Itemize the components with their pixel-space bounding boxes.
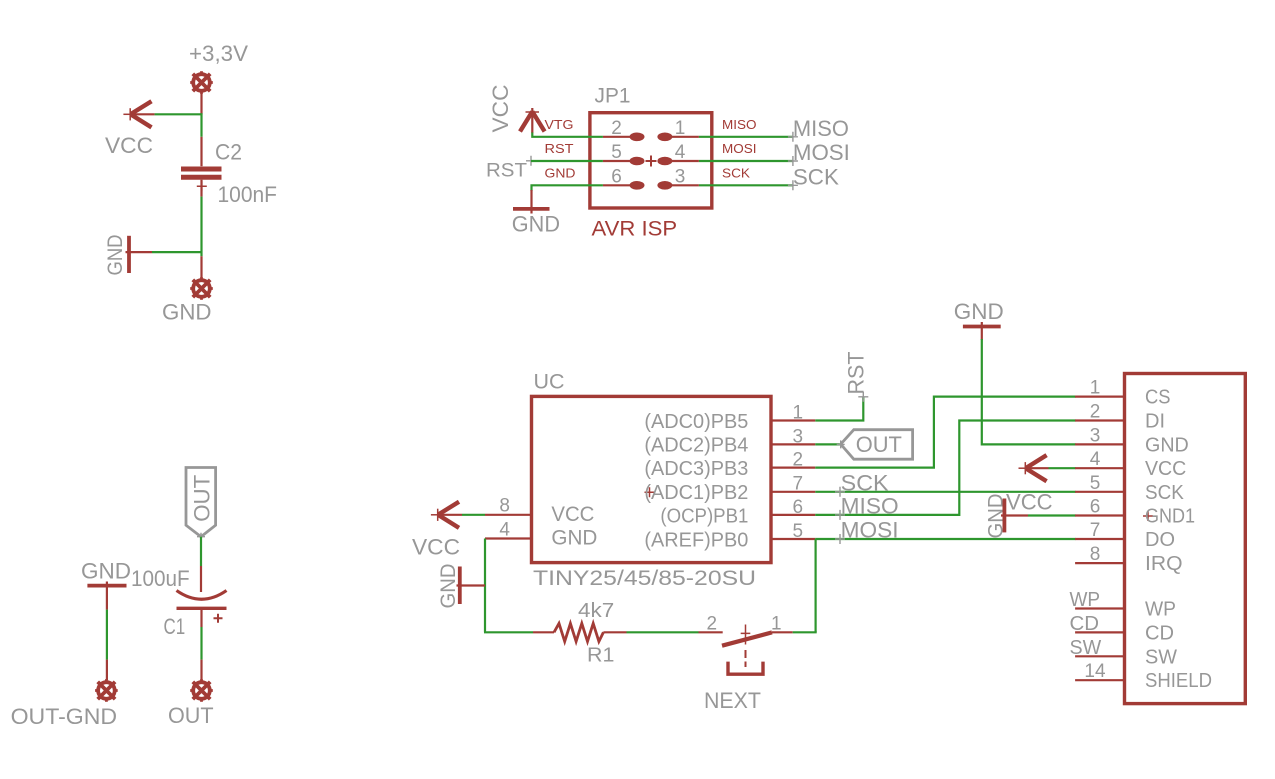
svg-text:VCC: VCC — [488, 84, 513, 132]
svg-text:NEXT: NEXT — [704, 688, 761, 713]
svg-text:VCC: VCC — [105, 133, 153, 158]
conn pin 4 stub — [1075, 467, 1124, 469]
svg-text:3: 3 — [675, 166, 686, 187]
svg-text:WP: WP — [1070, 589, 1101, 611]
svg-text:GND: GND — [512, 212, 560, 237]
svg-text:2: 2 — [611, 118, 622, 139]
svg-text:GND: GND — [545, 165, 576, 180]
svg-text:1: 1 — [771, 613, 782, 634]
pad OUT — [190, 679, 213, 702]
svg-text:MISO: MISO — [722, 117, 757, 132]
svg-text:(AREF)PB0: (AREF)PB0 — [644, 529, 748, 551]
switch NEXT pin 1 stub — [772, 631, 793, 633]
svg-text:GND: GND — [81, 559, 131, 584]
net label cross MISO — [788, 132, 798, 142]
wire C2 to GND node — [200, 197, 202, 257]
conn pin 1 stub — [1075, 396, 1124, 398]
svg-text:7: 7 — [1090, 520, 1101, 541]
svg-text:MISO: MISO — [793, 116, 849, 141]
conn pin 14 stub — [1075, 679, 1124, 681]
UC origin cross — [645, 487, 655, 497]
wire GND net to pin 3 — [982, 339, 1076, 444]
pad +3,3V — [190, 71, 213, 94]
wire RST to pin5 — [531, 160, 603, 162]
svg-text:DO: DO — [1145, 528, 1175, 551]
net label cross SCK — [788, 180, 798, 190]
svg-text:4: 4 — [675, 142, 686, 163]
switch NEXT pin 2 stub — [699, 631, 723, 633]
svg-text:CD: CD — [1145, 621, 1174, 644]
svg-text:VCC: VCC — [1145, 457, 1186, 480]
wire OUT net — [815, 443, 840, 445]
svg-text:(ADC2)PB4: (ADC2)PB4 — [644, 435, 748, 457]
IC UC body — [532, 396, 772, 562]
wire GND row to resistor — [484, 631, 533, 633]
supply VCC arrow at conn pin 4 — [1019, 455, 1049, 481]
wire pin4 MOSI — [699, 160, 793, 162]
capacitor C2 pin top — [200, 137, 202, 166]
wire MOSI net to DO — [815, 538, 1075, 540]
conn origin cross — [1143, 511, 1153, 521]
wire VCC to conn pin 4 — [1049, 467, 1076, 469]
wire VCC to node — [155, 113, 202, 115]
svg-text:1: 1 — [675, 118, 686, 139]
conn pin 5 stub — [1075, 491, 1124, 493]
supply VCC arrow (up) — [520, 108, 545, 133]
svg-text:CD: CD — [1070, 613, 1100, 635]
svg-text:(OCP)PB1: (OCP)PB1 — [660, 505, 748, 527]
net flag OUT (down) — [186, 468, 216, 537]
svg-text:+3,3V: +3,3V — [189, 41, 248, 66]
JP1 pad 5 — [603, 157, 645, 166]
svg-text:5: 5 — [793, 521, 804, 542]
svg-text:OUT: OUT — [856, 432, 902, 457]
wire pin 4 down — [484, 539, 486, 633]
net label cross MOSI — [788, 156, 798, 166]
svg-text:7: 7 — [793, 474, 804, 495]
resistor R1 lead left — [533, 631, 554, 633]
switch NEXT lever — [722, 632, 772, 645]
conn pin 3 stub — [1075, 443, 1124, 445]
wire ground to node — [152, 251, 202, 253]
svg-text:4: 4 — [1090, 449, 1101, 470]
wire resistor to switch — [627, 631, 699, 633]
connector JP1 body — [590, 113, 712, 208]
svg-text:GND: GND — [984, 494, 1007, 539]
ground symbol at UC — [457, 567, 486, 605]
svg-text:SW: SW — [1070, 637, 1102, 659]
JP1 pad 4 — [657, 157, 699, 166]
svg-text:IRQ: IRQ — [1145, 552, 1183, 575]
svg-text:1: 1 — [793, 402, 804, 423]
svg-text:MOSI: MOSI — [722, 141, 757, 156]
wire switch to branch — [793, 631, 817, 633]
net label cross SCK — [835, 487, 845, 497]
JP1 pad 2 — [603, 133, 645, 142]
svg-text:14: 14 — [1084, 661, 1106, 682]
svg-text:GND: GND — [437, 564, 460, 609]
wire OUT to C1 — [200, 537, 202, 566]
wire pin3 SCK — [699, 184, 793, 186]
svg-text:6: 6 — [793, 497, 804, 518]
UC pin 3 stub — [771, 443, 815, 445]
svg-text:C1: C1 — [164, 614, 186, 639]
switch origin cross — [741, 625, 751, 645]
svg-text:AVR ISP: AVR ISP — [592, 218, 678, 241]
UC pin 5 stub — [771, 538, 815, 540]
conn pin 2 stub — [1075, 419, 1124, 421]
svg-text:JP1: JP1 — [595, 85, 631, 108]
conn pin 7 stub — [1075, 538, 1124, 540]
svg-text:5: 5 — [611, 142, 622, 163]
wire VCC to pin2 — [532, 133, 603, 137]
svg-text:VCC: VCC — [1006, 490, 1053, 515]
svg-text:SCK: SCK — [722, 165, 750, 180]
svg-text:OUT: OUT — [190, 475, 215, 522]
svg-text:MOSI: MOSI — [841, 517, 899, 542]
net flag cross — [837, 440, 845, 448]
svg-text:(ADC3)PB3: (ADC3)PB3 — [644, 458, 748, 480]
svg-text:8: 8 — [1090, 544, 1101, 565]
svg-text:GND: GND — [551, 527, 597, 550]
svg-text:100nF: 100nF — [218, 182, 278, 207]
connector SD body — [1125, 374, 1246, 704]
wire node down — [200, 113, 202, 137]
net flag OUT (left) — [841, 430, 913, 460]
svg-text:2: 2 — [707, 613, 718, 634]
capacitor C1 pin bottom — [200, 608, 202, 627]
wire MISO net to DI — [815, 421, 1075, 515]
svg-text:CS: CS — [1145, 386, 1171, 409]
JP1 pad 1 — [657, 133, 699, 142]
UC pin 8 stub — [485, 514, 532, 516]
ground symbol (bar top) — [87, 582, 126, 610]
ground symbol JP1 — [513, 190, 550, 214]
svg-text:100uF: 100uF — [131, 566, 190, 591]
svg-text:(ADC1)PB2: (ADC1)PB2 — [644, 482, 748, 504]
svg-text:SW: SW — [1145, 645, 1178, 668]
supply VCC arrow (left) — [123, 101, 154, 127]
svg-text:5: 5 — [1090, 473, 1101, 494]
resistor R1 lead right — [603, 631, 626, 633]
svg-text:4: 4 — [499, 520, 510, 541]
svg-text:GND: GND — [1145, 433, 1189, 456]
ground symbol at conn pin 6 — [1001, 499, 1028, 533]
wire ground to pad — [106, 610, 108, 660]
svg-text:GND1: GND1 — [1145, 505, 1195, 528]
conn pin SW stub — [1075, 655, 1124, 657]
svg-text:DI: DI — [1145, 410, 1165, 433]
pad OUT-GND — [95, 679, 118, 702]
wire CS net — [815, 397, 1075, 468]
svg-text:SHIELD: SHIELD — [1145, 669, 1212, 692]
conn pin 6 stub — [1075, 514, 1124, 516]
capacitor C1 curved plate — [177, 591, 227, 600]
svg-text:3: 3 — [1090, 425, 1101, 446]
svg-text:4k7: 4k7 — [578, 600, 614, 622]
wire switch branch up — [814, 539, 816, 632]
wire SCK net — [815, 491, 1075, 493]
svg-text:C2: C2 — [215, 140, 242, 165]
C2 origin cross — [197, 181, 207, 191]
wire RST net — [815, 397, 863, 421]
pad GND — [190, 277, 213, 300]
net stub cross RST — [526, 156, 536, 166]
capacitor C2 plates — [181, 169, 222, 177]
capacitor C1 pin top — [200, 566, 202, 592]
svg-text:3: 3 — [793, 426, 804, 447]
svg-text:8: 8 — [499, 496, 510, 517]
svg-text:(ADC0)PB5: (ADC0)PB5 — [644, 411, 748, 433]
wire pin6 to ground — [532, 185, 603, 191]
net label cross MISO — [835, 510, 845, 520]
svg-text:GND: GND — [104, 235, 127, 276]
wire pad to junction (pin) — [200, 93, 202, 114]
svg-text:OUT: OUT — [168, 703, 214, 728]
JP1 origin cross — [646, 156, 657, 167]
UC pin 7 stub — [771, 491, 815, 493]
svg-text:GND: GND — [954, 299, 1004, 324]
net label cross MOSI — [835, 534, 845, 544]
supply VCC arrow at pin 8 — [431, 502, 462, 528]
svg-text:1: 1 — [1090, 378, 1101, 399]
net label cross RST — [858, 392, 868, 402]
resistor R1 zigzag — [554, 623, 603, 641]
UC pin 6 stub — [771, 514, 815, 516]
wire pin1 MISO — [699, 136, 793, 138]
JP1 pad 3 — [657, 181, 699, 190]
svg-text:UC: UC — [534, 371, 565, 394]
conn pin CD stub — [1075, 631, 1124, 633]
pad OUT-GND pin wire — [106, 660, 108, 680]
svg-text:VCC: VCC — [412, 535, 460, 560]
svg-text:TINY25/45/85-20SU: TINY25/45/85-20SU — [533, 567, 756, 590]
C1 polarity plus — [214, 614, 223, 623]
svg-text:RST: RST — [844, 352, 869, 395]
UC pin 4 stub — [485, 537, 532, 539]
switch actuator bracket — [728, 662, 763, 675]
conn pin 8 stub — [1075, 562, 1124, 564]
wire C1 to pad OUT — [200, 627, 202, 660]
UC pin 2 stub — [771, 467, 815, 469]
svg-text:RST: RST — [545, 141, 574, 156]
wire arrow to pin 8 — [462, 514, 485, 516]
switch actuator dashes — [745, 650, 747, 667]
ground symbol (left of node) — [126, 236, 153, 273]
svg-text:2: 2 — [793, 450, 804, 471]
net flag cross — [197, 533, 205, 541]
svg-text:RST: RST — [486, 161, 527, 182]
UC pin 1 stub — [771, 419, 815, 421]
svg-text:VTG: VTG — [545, 117, 574, 132]
svg-text:2: 2 — [1090, 402, 1101, 423]
pad OUT pin wire — [200, 660, 202, 680]
svg-text:6: 6 — [1090, 497, 1101, 518]
capacitor C2 pin bottom — [200, 180, 202, 197]
svg-text:WP: WP — [1145, 598, 1176, 621]
svg-text:MOSI: MOSI — [793, 140, 850, 165]
svg-text:R1: R1 — [587, 645, 614, 667]
pad GND pin wire — [200, 256, 202, 278]
svg-text:VCC: VCC — [551, 503, 594, 526]
svg-text:GND: GND — [162, 300, 212, 325]
svg-text:SCK: SCK — [1145, 481, 1184, 504]
svg-text:SCK: SCK — [793, 165, 839, 190]
ground symbol top right — [963, 322, 1001, 340]
svg-text:MISO: MISO — [841, 493, 899, 518]
conn pin WP stub — [1075, 607, 1124, 609]
wire ground to conn pin 6 — [1028, 514, 1076, 516]
capacitor C1 straight plate — [177, 607, 227, 610]
svg-text:6: 6 — [611, 166, 622, 187]
JP1 pad 6 — [603, 181, 645, 190]
svg-text:SCK: SCK — [841, 470, 889, 495]
svg-text:OUT-GND: OUT-GND — [11, 704, 118, 729]
